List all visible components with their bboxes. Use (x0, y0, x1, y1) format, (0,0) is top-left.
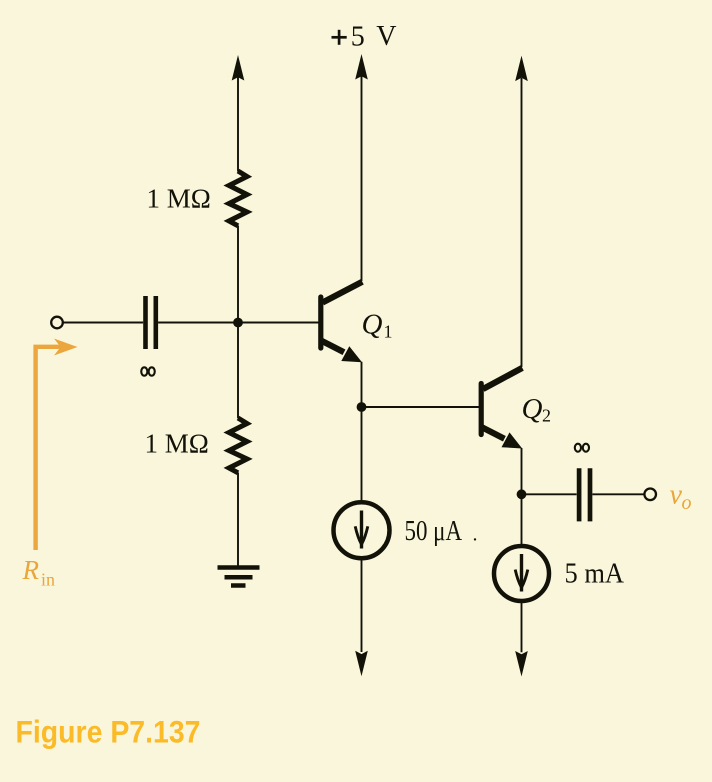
resistor R2 1 MΩ (229, 418, 247, 473)
label ∞ (C1) (141, 367, 155, 375)
supply arrow (bias rail top) (232, 55, 245, 81)
label 50 µA (405, 516, 477, 547)
svg-text:Q: Q (522, 393, 543, 425)
negative rail arrow (right) (515, 651, 528, 677)
wire node C to C2 (522, 493, 577, 495)
svg-text:1 MΩ: 1 MΩ (145, 429, 209, 459)
current source I2 5 mA (494, 546, 549, 601)
label vo (670, 480, 692, 515)
capacitor C1 (146, 296, 156, 349)
svg-text:R: R (22, 555, 40, 585)
negative rail arrow (left) (355, 651, 368, 677)
svg-text:Q: Q (362, 309, 383, 341)
svg-text:5 mA: 5 mA (565, 557, 625, 589)
svg-text:V: V (376, 21, 396, 52)
output terminal (644, 489, 656, 501)
wire bias rail mid (237, 226, 239, 419)
wire Q1 emitter down (361, 362, 363, 503)
wire node B to Q2 base (362, 406, 480, 408)
svg-text:50 μA: 50 μA (405, 516, 463, 547)
wire Q1 collector to +5V (361, 76, 363, 281)
capacitor C2 (579, 468, 590, 521)
svg-text:Figure P7.137: Figure P7.137 (16, 713, 201, 749)
label +5 V (332, 21, 397, 52)
node A (base junction dot) (233, 318, 243, 328)
supply arrow (right rail) (515, 56, 528, 82)
current source I1 50 µA (334, 502, 390, 558)
svg-text:2: 2 (542, 406, 551, 426)
supply arrow (+5 V rail) (355, 54, 368, 80)
label Q2 (522, 393, 552, 426)
wire C1 to node A to Q1 base (158, 322, 319, 324)
wire input to C1 (64, 322, 144, 324)
wire I2 to negative rail (521, 601, 523, 652)
svg-text:5: 5 (351, 21, 365, 52)
resistor R1 1 MΩ (229, 171, 247, 226)
wire bias rail upper (237, 76, 239, 172)
Rin arrow (orange) (36, 339, 78, 551)
wire Q2 collector to supply (521, 78, 523, 367)
wire bias rail lower (237, 473, 239, 566)
label Q1 (362, 309, 393, 342)
svg-text:o: o (682, 492, 692, 514)
svg-text:1: 1 (384, 322, 393, 342)
node C (Q2 emitter junction dot) (517, 489, 527, 499)
wire I1 to negative rail (361, 558, 363, 652)
wire Q2 emitter down (521, 448, 523, 546)
wire C2 to output terminal (592, 493, 644, 495)
transistor Q1 (321, 282, 363, 363)
label Rin (22, 555, 56, 590)
transistor Q2 (481, 368, 522, 449)
ground (218, 568, 260, 586)
node B (Q1 emitter junction dot) (357, 402, 367, 412)
svg-text:in: in (41, 570, 55, 590)
input terminal (51, 317, 63, 329)
label ∞ (C2) (575, 444, 589, 452)
svg-text:1 MΩ: 1 MΩ (147, 184, 211, 214)
